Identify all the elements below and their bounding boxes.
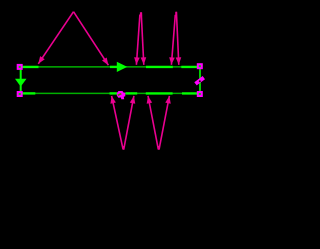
handle square top-left xyxy=(17,64,23,70)
bottom plate bright segment before star xyxy=(110,92,118,94)
handle square top-left green dot xyxy=(19,66,21,68)
diagonal magenta mark on right vertical xyxy=(196,78,204,84)
bottom plate (dark green full line) xyxy=(20,92,200,94)
V1 apex stub xyxy=(123,146,125,150)
V2 left leg (pink arrow up) xyxy=(148,96,158,149)
V1 right leg (pink arrow up) xyxy=(124,96,134,149)
spike A left leg xyxy=(136,15,140,65)
big triangle left leg (pink arrow down-left) xyxy=(38,12,73,64)
handle square top-right xyxy=(197,63,203,69)
big triangle right leg (pink arrow down-right) xyxy=(74,12,109,65)
top plate bright segment mid-right xyxy=(146,66,173,68)
V2 apex stub xyxy=(158,146,160,150)
V1 left leg (pink arrow up) xyxy=(112,96,123,149)
handle square bottom-right xyxy=(197,91,203,97)
bottom plate bright segment left xyxy=(20,92,35,94)
handle square bottom-left green dot xyxy=(19,93,21,95)
bottom plate bright segment right xyxy=(182,92,200,94)
big green arrowhead on top plate xyxy=(117,62,128,72)
spike A right leg xyxy=(141,12,144,65)
green down arrowhead on left vertical xyxy=(15,79,27,87)
spike B top stub xyxy=(175,12,177,16)
handle square bottom-left xyxy=(17,91,23,97)
dark hole in diagonal mark xyxy=(199,80,201,82)
bottom plate bright segment mid-right xyxy=(146,92,173,94)
top plate bright segment right xyxy=(181,66,200,68)
handle square top-right green dot xyxy=(199,65,201,67)
top plate bright arrow shaft xyxy=(110,66,119,68)
V2 right leg (pink arrow up) xyxy=(159,96,169,149)
olive streak inside star xyxy=(118,94,122,96)
top plate bright segment left xyxy=(20,66,39,68)
spike B left leg xyxy=(171,15,175,65)
top plate (dark green full line) xyxy=(20,66,200,68)
handle square bottom-right green dot xyxy=(199,93,201,95)
left vertical green line xyxy=(20,67,22,93)
star blob marker on bottom plate xyxy=(117,91,126,99)
spike A top stub xyxy=(140,12,142,16)
spike B right leg xyxy=(176,12,178,65)
bottom plate bright segment after star xyxy=(126,92,138,94)
right vertical green line xyxy=(199,67,201,93)
